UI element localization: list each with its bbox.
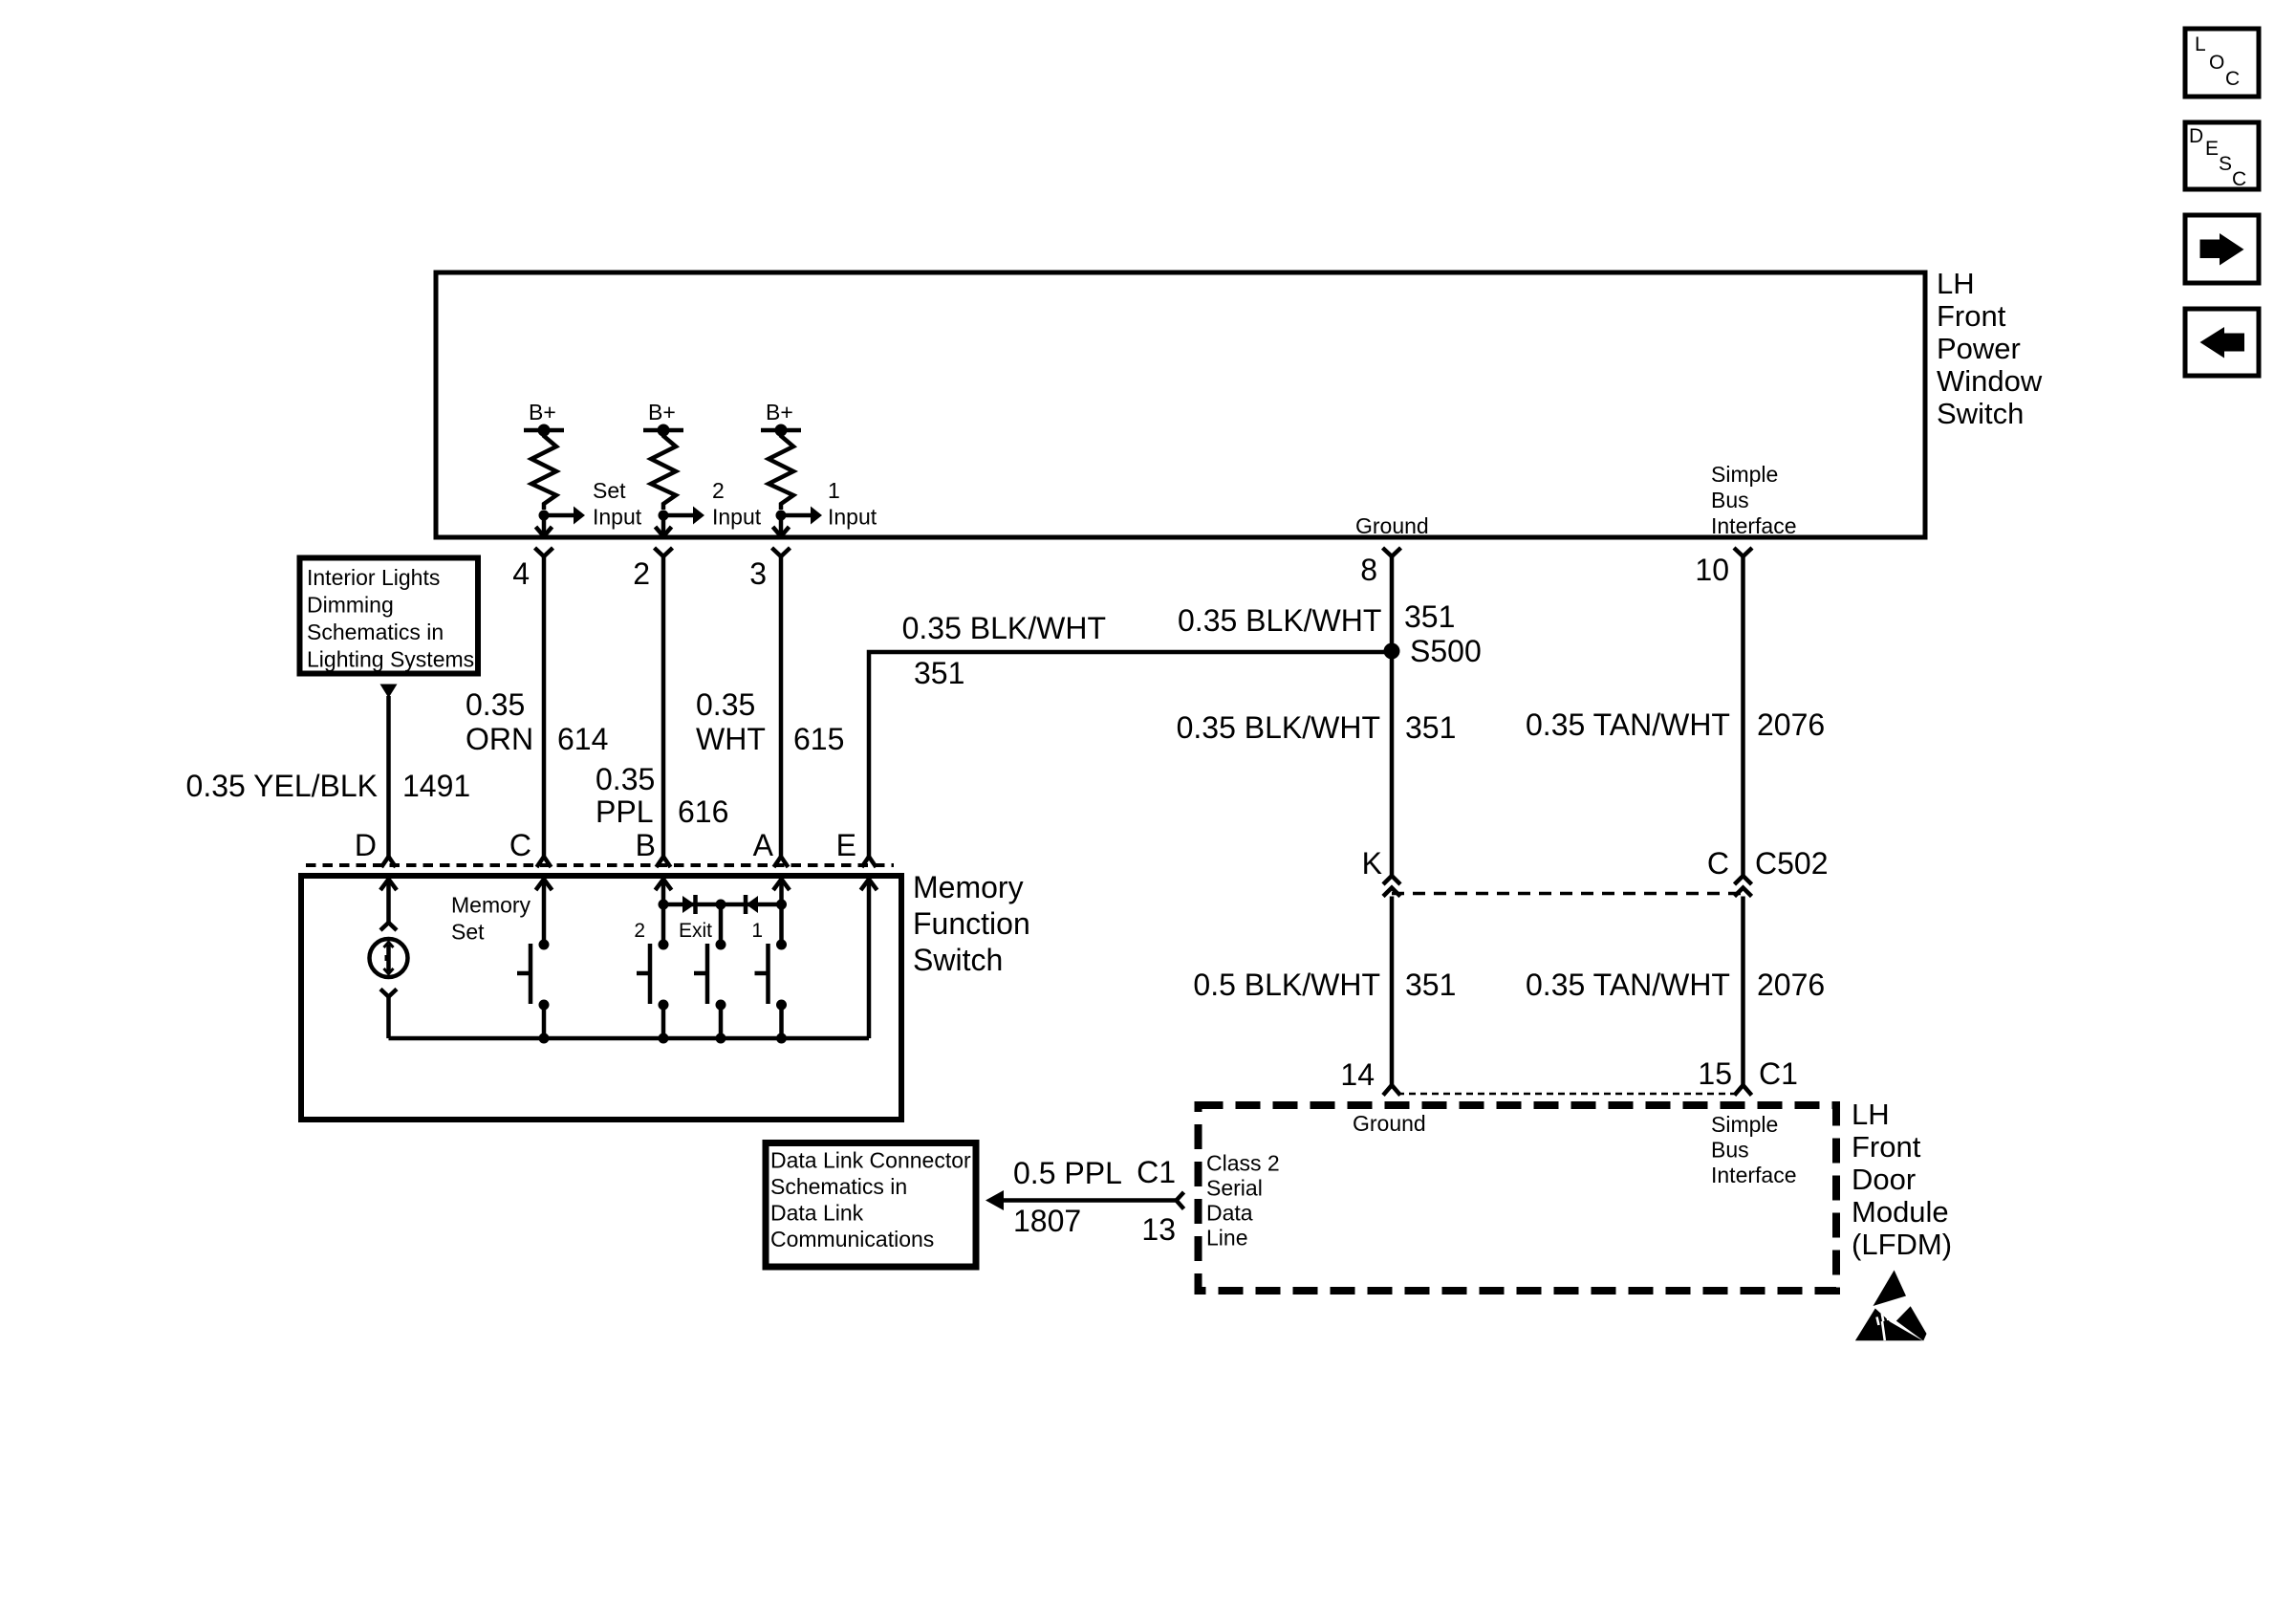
- svg-text:(LFDM): (LFDM): [1852, 1228, 1952, 1261]
- svg-text:Switch: Switch: [1937, 397, 2024, 430]
- svg-text:Set: Set: [451, 920, 485, 945]
- svg-text:Function: Function: [913, 906, 1030, 941]
- wire 615: [779, 556, 784, 857]
- module box LH Front Power Window Switch: [436, 272, 1925, 537]
- svg-text:A: A: [753, 828, 774, 862]
- svg-text:615: 615: [793, 722, 844, 756]
- svg-text:Simple: Simple: [1711, 462, 1778, 487]
- arrow into lighting reference: [380, 685, 398, 699]
- svg-text:Communications: Communications: [770, 1227, 934, 1251]
- wire to pin 4 with down arrow: [536, 515, 552, 536]
- label 1 Input: [828, 478, 877, 530]
- svg-text:0.35 TAN/WHT: 0.35 TAN/WHT: [1526, 968, 1730, 1002]
- svg-text:C: C: [2232, 168, 2246, 190]
- pin 8 connector: [1360, 548, 1400, 587]
- wire 616: [661, 556, 666, 857]
- svg-text:4: 4: [512, 556, 530, 591]
- label 0.35 TAN/WHT 2076 (lower): [1526, 968, 1825, 1002]
- pin B arrow into box: [656, 880, 672, 946]
- svg-text:Data Link Connector: Data Link Connector: [770, 1148, 971, 1173]
- svg-text:B+: B+: [766, 400, 793, 424]
- svg-text:10: 10: [1695, 553, 1729, 587]
- svg-text:Schematics in: Schematics in: [307, 620, 444, 644]
- switch 1: [755, 940, 788, 1039]
- label 0.35 ORN 614: [466, 687, 608, 756]
- label 0.35 PPL 616: [596, 762, 728, 829]
- power B+ node 2: [643, 400, 683, 437]
- pin E connector fork: [862, 857, 877, 867]
- svg-text:351: 351: [1405, 710, 1456, 745]
- pin E arrow into box: [861, 880, 877, 1039]
- svg-text:0.35 TAN/WHT: 0.35 TAN/WHT: [1526, 707, 1730, 742]
- bus wire (switch common): [389, 1036, 870, 1041]
- node junction 1: [776, 511, 787, 521]
- resistor (Set Input pull-up): [531, 430, 556, 510]
- svg-text:351: 351: [1405, 968, 1456, 1002]
- svg-text:C: C: [509, 828, 531, 862]
- svg-text:0.5 BLK/WHT: 0.5 BLK/WHT: [1193, 968, 1380, 1002]
- svg-text:Interface: Interface: [1711, 513, 1797, 538]
- label Memory Set: [451, 893, 531, 945]
- svg-text:Front: Front: [1852, 1130, 1921, 1164]
- svg-text:351: 351: [914, 656, 964, 690]
- splice S500: [1384, 634, 1482, 668]
- node bus-C: [539, 1033, 550, 1044]
- svg-text:2: 2: [633, 556, 650, 591]
- svg-text:2: 2: [634, 920, 645, 942]
- node bus-1: [776, 1033, 787, 1044]
- node bus-Exit: [716, 1033, 726, 1044]
- svg-text:D: D: [355, 828, 377, 862]
- pin C arrow into box: [536, 880, 552, 946]
- switch Exit: [694, 940, 726, 1039]
- pin C connector fork: [537, 857, 552, 867]
- svg-text:Lighting Systems: Lighting Systems: [307, 647, 474, 672]
- svg-text:C: C: [1707, 846, 1729, 881]
- power B+ node 1: [524, 400, 564, 437]
- connector C502 pin C: [1735, 876, 1752, 897]
- svg-text:Front: Front: [1937, 299, 2006, 333]
- svg-text:0.35 BLK/WHT: 0.35 BLK/WHT: [1178, 603, 1381, 638]
- pin 14 connector: [1383, 1085, 1400, 1096]
- nav arrow next: [2185, 215, 2259, 283]
- wire 1491: [386, 696, 391, 857]
- resistor (1 Input pull-up): [769, 430, 793, 510]
- label 0.35 TAN/WHT 2076 (upper): [1526, 707, 1825, 742]
- svg-text:Interface: Interface: [1711, 1163, 1797, 1187]
- node diode-A junction: [776, 900, 787, 910]
- svg-text:13: 13: [1141, 1212, 1176, 1247]
- diode row wire: [663, 903, 782, 907]
- svg-text:Ground: Ground: [1355, 513, 1429, 538]
- label Set Input: [593, 478, 642, 530]
- svg-text:Data Link: Data Link: [770, 1201, 864, 1226]
- svg-text:E: E: [836, 828, 856, 862]
- diode D2: [746, 895, 758, 914]
- nav box DESC: [2185, 122, 2259, 190]
- switch 2: [637, 940, 669, 1039]
- svg-text:0.35 BLK/WHT: 0.35 BLK/WHT: [1177, 710, 1380, 745]
- switch Memory Set: [517, 940, 550, 1039]
- pin 3 connector: [749, 548, 790, 591]
- svg-text:L: L: [2195, 33, 2206, 55]
- label Memory Function Switch: [913, 870, 1030, 977]
- label LH Front Door Module (LFDM): [1852, 1098, 1952, 1261]
- svg-text:Exit: Exit: [679, 920, 712, 942]
- svg-text:Interior Lights: Interior Lights: [307, 565, 440, 590]
- svg-text:B+: B+: [529, 400, 556, 424]
- svg-text:B+: B+: [648, 400, 676, 424]
- pin D connector fork: [381, 857, 396, 867]
- svg-text:C: C: [2225, 68, 2240, 90]
- arrow 1 Input: [781, 507, 822, 525]
- svg-text:Data: Data: [1206, 1201, 1253, 1226]
- svg-text:ORN: ORN: [466, 722, 533, 756]
- diode D1: [682, 895, 696, 914]
- pin 10 connector: [1695, 548, 1752, 587]
- svg-text:O: O: [2209, 52, 2224, 74]
- node diode-Exit junction: [716, 900, 726, 910]
- module box Memory Function Switch: [301, 876, 901, 1120]
- svg-text:0.35 BLK/WHT: 0.35 BLK/WHT: [902, 611, 1106, 645]
- label 0.35 WHT 615: [696, 687, 844, 756]
- pin 15 connector: [1735, 1085, 1752, 1096]
- svg-text:PPL: PPL: [596, 794, 653, 829]
- svg-text:C1: C1: [1137, 1155, 1176, 1189]
- svg-text:0.5 PPL: 0.5 PPL: [1013, 1156, 1122, 1190]
- label 0.35 BLK/WHT 351 (E segment): [902, 611, 1106, 690]
- svg-text:8: 8: [1360, 553, 1377, 587]
- label 0.35 BLK/WHT 351 (mid): [1177, 710, 1457, 745]
- svg-text:E: E: [2205, 138, 2219, 160]
- svg-text:C1: C1: [1759, 1056, 1798, 1091]
- svg-text:C502: C502: [1755, 846, 1829, 881]
- svg-text:Dimming: Dimming: [307, 593, 394, 618]
- wire 351 lower: [1390, 897, 1395, 1086]
- connector C502 pin K: [1383, 876, 1400, 897]
- connector dashed line (memory switch header): [306, 863, 894, 867]
- wire exit column: [719, 904, 724, 945]
- arrow Set Input: [544, 507, 585, 525]
- label Simple Bus Interface (LFDM): [1711, 1112, 1797, 1187]
- svg-text:3: 3: [749, 556, 767, 591]
- svg-text:2076: 2076: [1757, 707, 1825, 742]
- wire 1807 with arrow: [986, 1190, 1184, 1210]
- svg-text:D: D: [2189, 125, 2203, 147]
- svg-text:S500: S500: [1410, 634, 1482, 668]
- svg-text:Line: Line: [1206, 1226, 1247, 1251]
- arrow 2 Input: [663, 507, 704, 525]
- svg-text:2076: 2076: [1757, 968, 1825, 1002]
- label 2 Input: [712, 478, 762, 530]
- svg-text:Window: Window: [1937, 364, 2043, 398]
- svg-text:1807: 1807: [1013, 1204, 1081, 1238]
- pin 2 connector: [633, 548, 672, 591]
- svg-text:0.35: 0.35: [596, 762, 655, 796]
- svg-text:2: 2: [712, 478, 725, 503]
- resistor (2 Input pull-up): [651, 430, 676, 510]
- connector C502 dashed line: [1392, 892, 1744, 896]
- pin B connector fork: [657, 857, 671, 867]
- svg-text:Input: Input: [828, 505, 877, 530]
- module box LH Front Door Module (dashed): [1199, 1105, 1837, 1291]
- connector chevron below lamp: [380, 990, 397, 997]
- wire lamp to bus: [386, 997, 391, 1039]
- pin A arrow into box: [773, 880, 790, 946]
- svg-text:WHT: WHT: [696, 722, 766, 756]
- wire 351 upper: [1390, 556, 1395, 876]
- label 0.35 BLK/WHT 351 (pin 8 segment): [1178, 599, 1455, 638]
- reference box Interior Lights Dimming: [300, 558, 479, 674]
- svg-text:351: 351: [1404, 599, 1455, 634]
- wire to pin 2 with down arrow: [656, 515, 672, 536]
- svg-text:1491: 1491: [402, 769, 470, 803]
- svg-text:Bus: Bus: [1711, 1138, 1749, 1163]
- node junction 2: [659, 511, 669, 521]
- svg-text:Simple: Simple: [1711, 1112, 1778, 1137]
- svg-text:K: K: [1362, 846, 1382, 881]
- svg-text:S: S: [2219, 153, 2232, 175]
- label Simple Bus Interface (switch): [1711, 462, 1797, 538]
- node junction Set: [539, 511, 550, 521]
- svg-text:Schematics in: Schematics in: [770, 1174, 907, 1199]
- label Class 2 Serial Data Line: [1206, 1151, 1280, 1251]
- svg-text:B: B: [636, 828, 656, 862]
- reference box Data Link Connector: [766, 1143, 976, 1268]
- wire 614: [542, 556, 547, 857]
- node diode-B junction: [659, 900, 669, 910]
- wire 2076 lower: [1741, 897, 1745, 1086]
- svg-text:1: 1: [751, 920, 763, 942]
- svg-text:1: 1: [828, 478, 840, 503]
- svg-text:Door: Door: [1852, 1163, 1916, 1196]
- connector chevron above lamp: [380, 923, 397, 930]
- svg-text:0.35: 0.35: [466, 687, 525, 722]
- pin 4 connector: [512, 548, 552, 591]
- svg-text:Set: Set: [593, 478, 626, 503]
- label 0.5 BLK/WHT 351 (lower): [1193, 968, 1456, 1002]
- nav box LOC: [2185, 29, 2259, 97]
- svg-text:LH: LH: [1937, 267, 1975, 300]
- label 0.35 YEL/BLK 1491: [186, 769, 471, 803]
- svg-text:Switch: Switch: [913, 943, 1003, 977]
- svg-text:0.35 YEL/BLK: 0.35 YEL/BLK: [186, 769, 378, 803]
- wire to pin 3 with down arrow: [773, 515, 790, 536]
- pin A connector fork: [774, 857, 789, 867]
- power B+ node 3: [761, 400, 801, 437]
- svg-text:15: 15: [1698, 1056, 1732, 1091]
- node bus-2: [659, 1033, 669, 1044]
- svg-text:Module: Module: [1852, 1195, 1949, 1229]
- svg-text:Bus: Bus: [1711, 488, 1749, 512]
- svg-text:0.35: 0.35: [696, 687, 755, 722]
- svg-text:Power: Power: [1937, 332, 2021, 365]
- svg-text:616: 616: [678, 794, 728, 829]
- svg-text:614: 614: [557, 722, 608, 756]
- wire 351 from E to S500: [869, 652, 1389, 857]
- svg-text:Class 2: Class 2: [1206, 1151, 1280, 1176]
- lamp symbol (memory set illumination): [370, 939, 408, 977]
- svg-text:Memory: Memory: [913, 870, 1024, 904]
- nav arrow prev: [2185, 309, 2259, 376]
- svg-text:Input: Input: [593, 505, 642, 530]
- svg-text:Memory: Memory: [451, 893, 531, 918]
- svg-text:Ground: Ground: [1353, 1111, 1426, 1136]
- svg-text:Serial: Serial: [1206, 1176, 1263, 1201]
- svg-text:Input: Input: [712, 505, 762, 530]
- connector C1 dashed line: [1397, 1093, 1738, 1096]
- svg-text:14: 14: [1340, 1057, 1375, 1092]
- wire 2076 upper: [1741, 556, 1745, 876]
- label LH Front Power Window Switch: [1937, 267, 2043, 430]
- pin D arrow into box: [380, 880, 397, 924]
- ESD symbol: [1855, 1271, 1927, 1341]
- svg-text:LH: LH: [1852, 1098, 1890, 1131]
